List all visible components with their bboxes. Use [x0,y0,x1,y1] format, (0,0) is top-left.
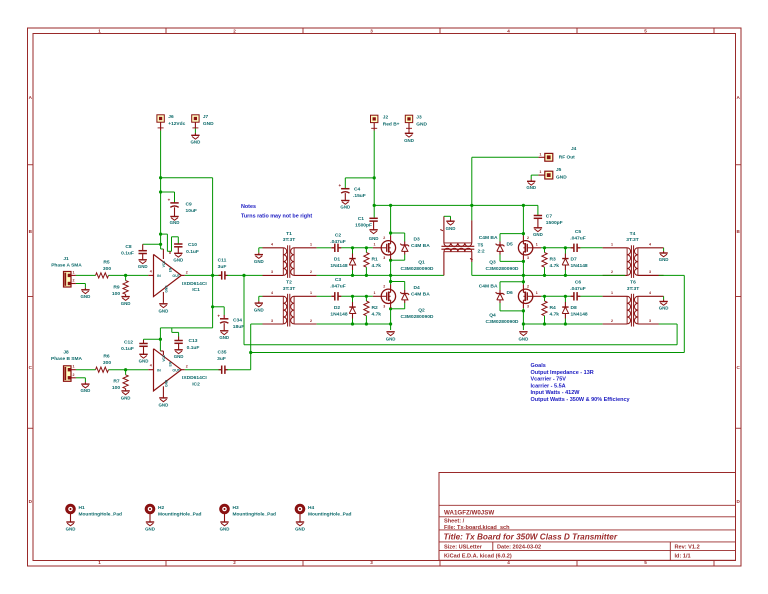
ground under R9 [125,294,127,296]
svg-text:GND: GND [519,336,529,341]
wire to C9 [161,191,175,193]
svg-text:2: 2 [527,284,529,288]
wire node B to T2 pin3 [251,323,263,325]
svg-text:C5: C5 [575,229,582,235]
ground at T1 pin4 [259,247,263,249]
ground at T5 top left pin [444,215,451,217]
svg-text:GND: GND [340,205,350,210]
capacitor C34 18uF [223,315,225,319]
svg-text:C3M0280090D: C3M0280090D [401,266,434,272]
wire T2 pin1 to C3 [317,295,332,297]
wire Q1 source to Q2 drain [390,255,392,260]
ground under C10 [177,247,179,254]
svg-text:GND: GND [369,236,379,241]
svg-text:4: 4 [150,364,152,368]
svg-text:R2: R2 [372,305,379,311]
svg-text:0.1uF: 0.1uF [121,346,134,352]
svg-text:GND: GND [81,294,91,299]
svg-text:H3: H3 [233,505,239,511]
svg-text:1500pF: 1500pF [546,220,563,226]
svg-text:D2: D2 [334,305,341,311]
svg-text:1500pF: 1500pF [355,222,372,228]
svg-text:4.7k: 4.7k [550,311,560,317]
svg-text:1: 1 [611,243,613,247]
svg-text:Date: 2024-03-02: Date: 2024-03-02 [497,545,541,551]
svg-text:Q3: Q3 [489,259,496,265]
svg-text:Title: Tx Board for 350W Class: Title: Tx Board for 350W Class D Transmi… [444,532,618,541]
svg-text:2:2: 2:2 [478,249,485,255]
svg-text:H4: H4 [308,505,314,511]
svg-text:R5: R5 [103,259,110,265]
svg-text:Goals: Goals [531,363,546,369]
svg-text:Red B+: Red B+ [383,121,400,127]
svg-text:MountingHole_Pad: MountingHole_Pad [233,512,277,518]
svg-text:KiCad E.D.A. kicad (6.0.2): KiCad E.D.A. kicad (6.0.2) [444,553,512,559]
svg-text:4.7k: 4.7k [372,263,382,269]
svg-text:Vcarrier - 75V: Vcarrier - 75V [531,377,567,383]
wire rail branch right to C34 and IC2 [161,177,213,179]
svg-text:10uF: 10uF [186,208,197,214]
ground under C12 [143,346,145,354]
ground under Q2 source [386,331,394,333]
svg-text:J5: J5 [556,167,562,173]
capacitor C7 1500pF [534,215,542,217]
svg-text:J2: J2 [383,115,389,121]
svg-text:2: 2 [310,270,312,274]
svg-text:3: 3 [370,560,373,565]
connector J5 GND [545,171,553,179]
svg-text:2: 2 [73,373,75,377]
svg-text:IN: IN [157,274,161,278]
svg-text:VCC: VCC [162,354,166,361]
svg-text:Input Watts - 412W: Input Watts - 412W [531,390,581,396]
wire IC1 out to C11 [185,274,222,276]
wire Q4 source row to T6 pin2 [523,323,602,325]
transistor Q4 C3M0280090D [518,289,532,303]
svg-text:1: 1 [98,29,101,34]
title block outline [439,473,736,561]
svg-text:1: 1 [536,243,538,247]
wire B+ rail across [374,204,538,206]
ground under H2 [146,521,154,523]
svg-text:C6: C6 [575,279,582,285]
svg-text:GND: GND [254,307,264,312]
svg-text:1: 1 [310,243,312,247]
svg-text:GND: GND [165,285,169,293]
svg-text:0.1uF: 0.1uF [186,249,199,255]
capacitor C6 .047uF [571,295,574,297]
ground under H4 [296,521,304,523]
ground under C34 [223,323,225,331]
svg-text:1: 1 [310,291,312,295]
svg-text:5: 5 [644,29,647,34]
diode D4 C4M BA across Q2 [391,281,405,283]
svg-text:OUT: OUT [172,274,180,278]
capacitor C13 0.1uF [178,337,180,341]
svg-text:4: 4 [150,269,152,273]
svg-text:GND: GND [121,395,131,400]
svg-text:GND: GND [145,527,155,532]
diode D3 C4M BA across Q1 [391,232,405,234]
svg-text:IXDD614CI: IXDD614CI [182,281,207,287]
svg-text:Size: USLetter: Size: USLetter [444,545,483,551]
svg-text:1: 1 [539,170,541,174]
svg-text:2: 2 [527,236,529,240]
svg-text:Q4: Q4 [489,312,496,318]
ground under IC1 [162,302,164,304]
connector J1 Phase A SMA [64,272,72,288]
svg-text:GND: GND [170,220,180,225]
capacitor C1 1500pF [369,217,377,219]
svg-text:4: 4 [649,243,651,247]
ground under J5 [531,174,538,176]
svg-text:R7: R7 [113,379,120,385]
svg-text:H1: H1 [79,505,85,511]
svg-text:GND: GND [386,336,396,341]
svg-text:2: 2 [310,319,312,323]
wire C3 to Q2 gate [341,295,373,297]
svg-text:C3M0280090D: C3M0280090D [486,266,519,272]
svg-text:D6: D6 [507,290,514,296]
ground under R7 [125,389,127,391]
wire C35 to node B [227,369,251,371]
svg-text:Turns ratio may not be right: Turns ratio may not be right [241,214,312,220]
diode D2 1N4148 [352,296,354,302]
svg-text:3: 3 [527,256,529,260]
svg-text:3: 3 [383,256,385,260]
wire T5 bottom right to output node [471,262,473,275]
ground under C4 [344,193,346,200]
svg-text:3: 3 [649,270,651,274]
svg-text:0.1uF: 0.1uF [121,251,134,257]
mounting hole H4 [296,505,304,513]
wire T4 pin3 to node B riser [638,274,659,276]
svg-text:2: 2 [611,270,613,274]
wire R6 to IC2 input [109,369,149,371]
ground under C7 [537,218,539,228]
svg-text:GND: GND [174,354,184,359]
svg-text:2: 2 [233,560,236,565]
svg-text:T1: T1 [286,231,292,237]
connector J3 GND [405,115,412,122]
svg-text:GND: GND [220,527,230,532]
svg-text:1: 1 [374,243,376,247]
svg-text:T2: T2 [286,280,292,286]
svg-text:C4M BA: C4M BA [479,283,498,289]
svg-text:.047uF: .047uF [330,239,346,245]
ground at T6 pin4 [663,296,665,299]
resistor R5 300 [96,273,109,278]
wire to C8 [143,243,161,245]
resistor R4 4.7k [544,296,546,301]
svg-text:GND: GND [533,232,543,237]
svg-text:GND: GND [416,121,427,127]
wire Q4 source to ground [522,304,524,309]
svg-text:.15uF: .15uF [353,193,366,199]
svg-text:C11: C11 [218,258,227,264]
ground under IC2 [162,397,164,398]
svg-text:4: 4 [649,291,651,295]
svg-text:1N4148: 1N4148 [571,263,588,269]
gate driver IC1 IXDD614CI [154,254,182,296]
resistor R7 100 [125,370,127,375]
ground under H3 [220,521,228,523]
svg-text:C3: C3 [335,277,342,283]
svg-text:Phase B SMA: Phase B SMA [51,356,82,362]
svg-text:GND: GND [159,309,169,314]
svg-text:C8: C8 [125,244,132,250]
svg-text:300: 300 [103,266,111,272]
capacitor C2 .047uF [331,247,335,249]
svg-text:D7: D7 [571,256,578,262]
ground under J7 [194,129,196,134]
connector J2 Red B+ [371,115,378,122]
svg-text:EN: EN [169,267,173,272]
svg-text:GND: GND [254,259,264,264]
capacitor C11 3uF [220,274,222,276]
svg-text:1: 1 [611,291,613,295]
transistor Q3 C3M0280090D [518,241,532,255]
svg-text:1: 1 [374,291,376,295]
svg-text:GND: GND [173,258,183,263]
svg-text:MountingHole_Pad: MountingHole_Pad [308,512,352,518]
mounting hole H1 [67,505,75,513]
svg-text:GND: GND [203,121,214,127]
svg-text:+: + [217,313,220,318]
svg-text:H2: H2 [158,505,164,511]
wire C6 to T6 pin1 [580,295,602,297]
svg-text:18uF: 18uF [233,324,244,330]
svg-text:300: 300 [103,360,111,366]
svg-text:3uF: 3uF [217,356,226,362]
border column ticks and numbers [165,28,167,34]
svg-text:3: 3 [370,29,373,34]
wire C2 to Q1 gate [341,247,373,249]
svg-text:T4: T4 [630,231,636,237]
svg-text:C1: C1 [358,216,365,222]
svg-text:4.7k: 4.7k [550,263,560,269]
svg-text:R3: R3 [550,256,557,262]
svg-text:+12Vdc: +12Vdc [168,121,185,127]
resistor R3 4.7k [544,248,546,253]
svg-text:100: 100 [112,291,120,297]
diode D7 1N4148 [564,248,566,254]
svg-text:1: 1 [98,560,101,565]
svg-text:IN: IN [157,369,161,373]
ground under C8 [142,254,144,260]
svg-text:4.7k: 4.7k [372,311,382,317]
connector J7 GND [192,115,199,122]
svg-text:GND: GND [138,264,148,269]
svg-text:GND: GND [526,185,536,190]
svg-text:GND: GND [81,388,91,393]
svg-text:C35: C35 [218,350,227,356]
svg-text:D1: D1 [334,256,341,262]
svg-text:.047uF: .047uF [330,283,346,289]
svg-text:0.1uF: 0.1uF [187,345,200,351]
ground under J1 pin2 [76,283,86,285]
svg-text:.047uF: .047uF [570,286,586,292]
svg-text:1: 1 [539,152,541,156]
capacitor C10 0.1uF [177,243,179,246]
svg-text:Output Watts - 350W & 90% Effi: Output Watts - 350W & 90% Efficiency [531,397,631,403]
diode D6 C4M BA across Q4 [500,281,523,283]
svg-text:1: 1 [536,291,538,295]
svg-text:GND: GND [659,306,669,311]
svg-text:1N4148: 1N4148 [571,311,588,317]
svg-text:C4M BA: C4M BA [479,235,498,241]
svg-text:2: 2 [383,236,385,240]
svg-text:C9: C9 [186,202,193,208]
ground at T2 pin4 [259,295,263,297]
svg-text:1: 1 [73,270,75,274]
wire T1 pin2 row [317,274,444,276]
wire B+ to C7 [537,205,539,215]
svg-text:C4M BA: C4M BA [411,291,430,297]
svg-text:R4: R4 [550,305,557,311]
svg-text:C10: C10 [188,242,197,248]
svg-text:J1: J1 [63,256,69,262]
svg-text:GND: GND [659,257,669,262]
svg-text:GND: GND [404,138,414,143]
wire node B to T4 [251,352,685,354]
svg-text:J4: J4 [571,146,577,152]
svg-text:C4M BA: C4M BA [411,243,430,249]
svg-text:File: Tx-board.kicad_sch: File: Tx-board.kicad_sch [444,525,510,531]
svg-text:C12: C12 [124,340,133,346]
wire J8 to R6 [76,369,96,371]
svg-text:GND: GND [165,379,169,387]
svg-text:C7: C7 [546,213,553,219]
svg-text:2: 2 [73,279,75,283]
svg-text:R6: R6 [103,354,110,360]
wire Q3 source to Q4 drain [522,255,524,260]
border row ticks and letters [28,164,34,166]
mounting hole H2 [146,505,154,513]
svg-text:IXDD614CI: IXDD614CI [182,375,207,381]
svg-text:4: 4 [507,29,510,34]
gate driver IC2 IXDD614CI [154,349,182,391]
capacitor C5 .047uF [571,247,574,249]
svg-text:D8: D8 [571,305,578,311]
mounting hole H3 [221,505,229,513]
svg-text:Phase A SMA: Phase A SMA [51,263,82,269]
wire C5 to T4 pin1 [580,247,602,249]
ground under C9 [174,207,176,216]
wire node A to T6 [243,275,245,344]
svg-text:GND: GND [446,226,456,231]
svg-text:4: 4 [271,291,273,295]
svg-text:1N4148: 1N4148 [330,263,347,269]
svg-text:Output Impedance - 13R: Output Impedance - 13R [531,370,594,376]
svg-text:3T:3T: 3T:3T [626,237,639,243]
svg-text:D3: D3 [414,236,421,242]
svg-text:GND: GND [191,139,201,144]
connector J8 Phase B SMA [64,366,72,382]
resistor R2 4.7k [365,296,367,301]
wire zigzag to C10 [161,233,168,235]
svg-text:C4: C4 [354,186,361,192]
wire +12V rail from J6 [160,131,162,245]
capacitor C8 0.1uF [142,244,144,250]
svg-text:J3: J3 [416,115,422,121]
svg-text:Q2: Q2 [418,307,425,313]
diode D1 1N4148 [352,248,354,254]
svg-text:D5: D5 [507,241,514,247]
wire T2 pin2 row [317,323,391,325]
transformer T6 3T:3T [627,296,630,324]
svg-text:2: 2 [186,270,188,274]
wire IC2 out to C35 [185,369,222,371]
svg-text:2: 2 [186,365,188,369]
wire T1 pin1 to C2 [317,247,332,249]
svg-text:GND: GND [295,527,305,532]
svg-text:3: 3 [271,319,273,323]
wire C11 to T1 node A [227,274,263,276]
svg-text:3: 3 [527,305,529,309]
svg-text:T6: T6 [630,280,636,286]
ground under H1 [66,521,74,523]
svg-text:+: + [338,183,341,188]
wire zigzag to C13 [171,328,173,333]
svg-text:3T:3T: 3T:3T [283,286,296,292]
connector J6 +12Vdc [157,115,164,122]
transformer T5 2:2 [444,243,472,246]
svg-text:VCC: VCC [162,260,166,267]
svg-text:IC1: IC1 [192,287,200,293]
svg-text:2: 2 [611,319,613,323]
svg-text:D4: D4 [414,285,421,291]
wire Q2 source to ground [390,304,392,309]
ground under J8 pin2 [76,377,86,379]
wire Q4 gate row [541,295,571,297]
svg-text:GND: GND [66,527,76,532]
svg-text:Q1: Q1 [418,259,425,265]
capacitor C12 0.1uF [144,338,161,340]
wire B+ from J2 [373,131,375,218]
svg-text:3: 3 [649,319,651,323]
wire J4 to T5 [472,156,539,158]
ground under C1 [373,221,375,230]
svg-text:C2: C2 [335,232,342,238]
svg-text:2: 2 [233,29,236,34]
svg-text:+: + [168,197,171,202]
svg-text:3T:3T: 3T:3T [627,286,640,292]
svg-text:1: 1 [73,365,75,369]
wire T4 pin2 row [603,274,626,276]
svg-text:.047uF: .047uF [570,235,586,241]
svg-text:GND: GND [139,359,149,364]
resistor R9 100 [125,275,127,280]
svg-text:C3M0280090D: C3M0280090D [486,319,519,325]
capacitor C3 .047uF [334,292,336,300]
ground under Q4 source [519,331,527,333]
svg-text:J6: J6 [168,114,174,120]
capacitor C4 .15uF [341,188,349,190]
resistor R6 300 [96,367,109,372]
svg-text:RF Out: RF Out [559,155,575,161]
ground at T4 pin4 [663,248,665,251]
diode D8 1N4148 [564,296,566,302]
resistor R1 4.7k [365,248,367,253]
diode D5 C4M BA across Q3 [500,233,523,235]
svg-text:IC2: IC2 [192,382,200,388]
transformer T4 3T:3T [627,248,630,276]
svg-text:3: 3 [271,270,273,274]
wire B+ rail to Q1 drain [390,205,392,235]
svg-text:GND: GND [556,174,567,180]
svg-text:3T:3T: 3T:3T [283,237,296,243]
